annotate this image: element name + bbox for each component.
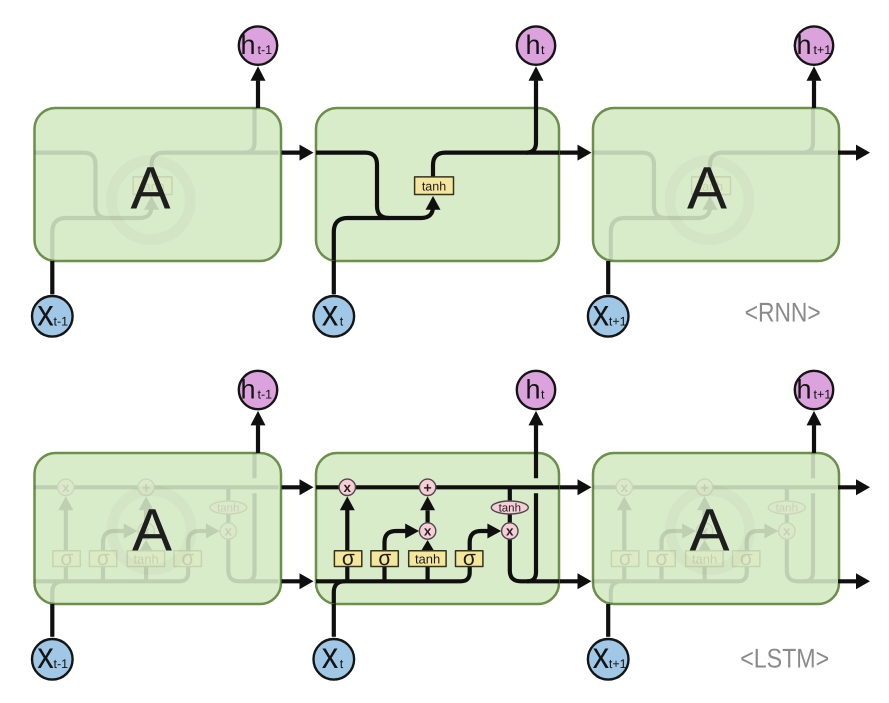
svg-text:h: h (796, 30, 811, 60)
arrow: LSTM cell1 to cell2 bottom (282, 573, 314, 589)
wire: x t stub RNN (332, 261, 336, 294)
svg-text:t-1: t-1 (258, 43, 273, 57)
svg-text:h: h (525, 30, 540, 60)
svg-text:<LSTM>: <LSTM> (740, 643, 829, 673)
faded recurrence ring cell A1 (112, 161, 191, 240)
svg-text:t+1: t+1 (814, 387, 832, 401)
node x t+1 RNN (588, 296, 629, 337)
faded recurrence ring cell B3 (671, 491, 750, 570)
svg-text:x: x (322, 293, 339, 334)
faded internals cell B3 (575, 448, 837, 652)
wire: x t-1 stub LSTM (50, 604, 54, 637)
svg-text:t+1: t+1 (609, 657, 627, 671)
svg-text:h: h (240, 30, 255, 60)
cell A1 (RNN left) (35, 108, 282, 261)
svg-text:t: t (541, 387, 545, 401)
node h t-1 LSTM (239, 371, 277, 409)
svg-text:t: t (340, 314, 344, 328)
svg-text:x: x (593, 635, 610, 676)
svg-text:x: x (37, 635, 54, 676)
svg-text:t-1: t-1 (54, 314, 69, 328)
svg-text:A: A (689, 497, 729, 564)
svg-text:<RNN>: <RNN> (745, 297, 821, 327)
wire: h t+1 stub RNN (812, 81, 816, 108)
svg-text:t-1: t-1 (258, 387, 273, 401)
arrow: RNN cell1 to cell2 (282, 145, 314, 161)
cell A3 (RNN right) (593, 108, 839, 261)
node x t-1 LSTM (32, 639, 73, 680)
node h t-1 RNN (239, 26, 277, 64)
svg-text:x: x (322, 635, 339, 676)
wire: x t+1 stub RNN (606, 261, 610, 294)
svg-text:h: h (240, 374, 255, 404)
faded internals cell A1 (17, 98, 279, 306)
node x t-1 RNN (32, 296, 73, 337)
arrow: LSTM cell3 exit bottom (838, 573, 870, 589)
cell B1 (LSTM left) (35, 453, 282, 604)
wire: x t+1 stub LSTM (606, 604, 610, 637)
faded recurrence ring cell A3 (670, 161, 749, 240)
arrow: LSTM cell1 to cell2 top (282, 479, 314, 495)
svg-text:A: A (130, 155, 170, 222)
node h t LSTM (517, 371, 555, 409)
solid internals cell A2 (298, 98, 560, 306)
cell B3 (LSTM right) (593, 453, 839, 604)
cell B2 (LSTM middle) (316, 453, 559, 604)
arrow: RNN cell3 exit (838, 145, 870, 161)
cell A2 (RNN middle) (316, 108, 559, 261)
wire: h t stub LSTM (534, 425, 538, 453)
svg-text:t: t (340, 657, 344, 671)
wire: x t stub LSTM (332, 604, 336, 637)
node x t+1 LSTM (588, 639, 629, 680)
node h t+1 RNN (795, 26, 833, 64)
wire: h t-1 stub LSTM (256, 425, 260, 453)
arrow: LSTM cell2 to cell3 top (560, 479, 592, 495)
solid internals cell B2 (298, 448, 560, 652)
arrow: RNN cell2 to cell3 (560, 145, 592, 161)
svg-text:h: h (525, 374, 540, 404)
svg-text:t+1: t+1 (609, 314, 627, 328)
svg-text:h: h (796, 374, 811, 404)
faded recurrence ring cell B1 (112, 491, 191, 570)
svg-text:x: x (37, 293, 54, 334)
wire: h t-1 stub RNN (256, 81, 260, 108)
wire: h t stub RNN (534, 81, 538, 108)
node h t RNN (517, 26, 555, 64)
arrow: LSTM cell2 to cell3 bottom (560, 573, 592, 589)
svg-text:A: A (132, 497, 172, 564)
faded internals cell B1 (17, 448, 279, 652)
node h t+1 LSTM (795, 371, 833, 409)
wire: h t+1 stub LSTM (812, 425, 816, 453)
svg-text:A: A (687, 155, 727, 222)
wire: x t-1 stub RNN (50, 261, 54, 294)
arrow: LSTM cell3 exit top (838, 479, 870, 495)
svg-text:x: x (593, 293, 610, 334)
faded internals cell A3 (575, 98, 837, 306)
node x t LSTM (314, 639, 355, 680)
svg-text:t-1: t-1 (54, 657, 69, 671)
svg-text:t: t (541, 43, 545, 57)
node x t RNN (314, 296, 355, 337)
svg-text:t+1: t+1 (814, 43, 832, 57)
